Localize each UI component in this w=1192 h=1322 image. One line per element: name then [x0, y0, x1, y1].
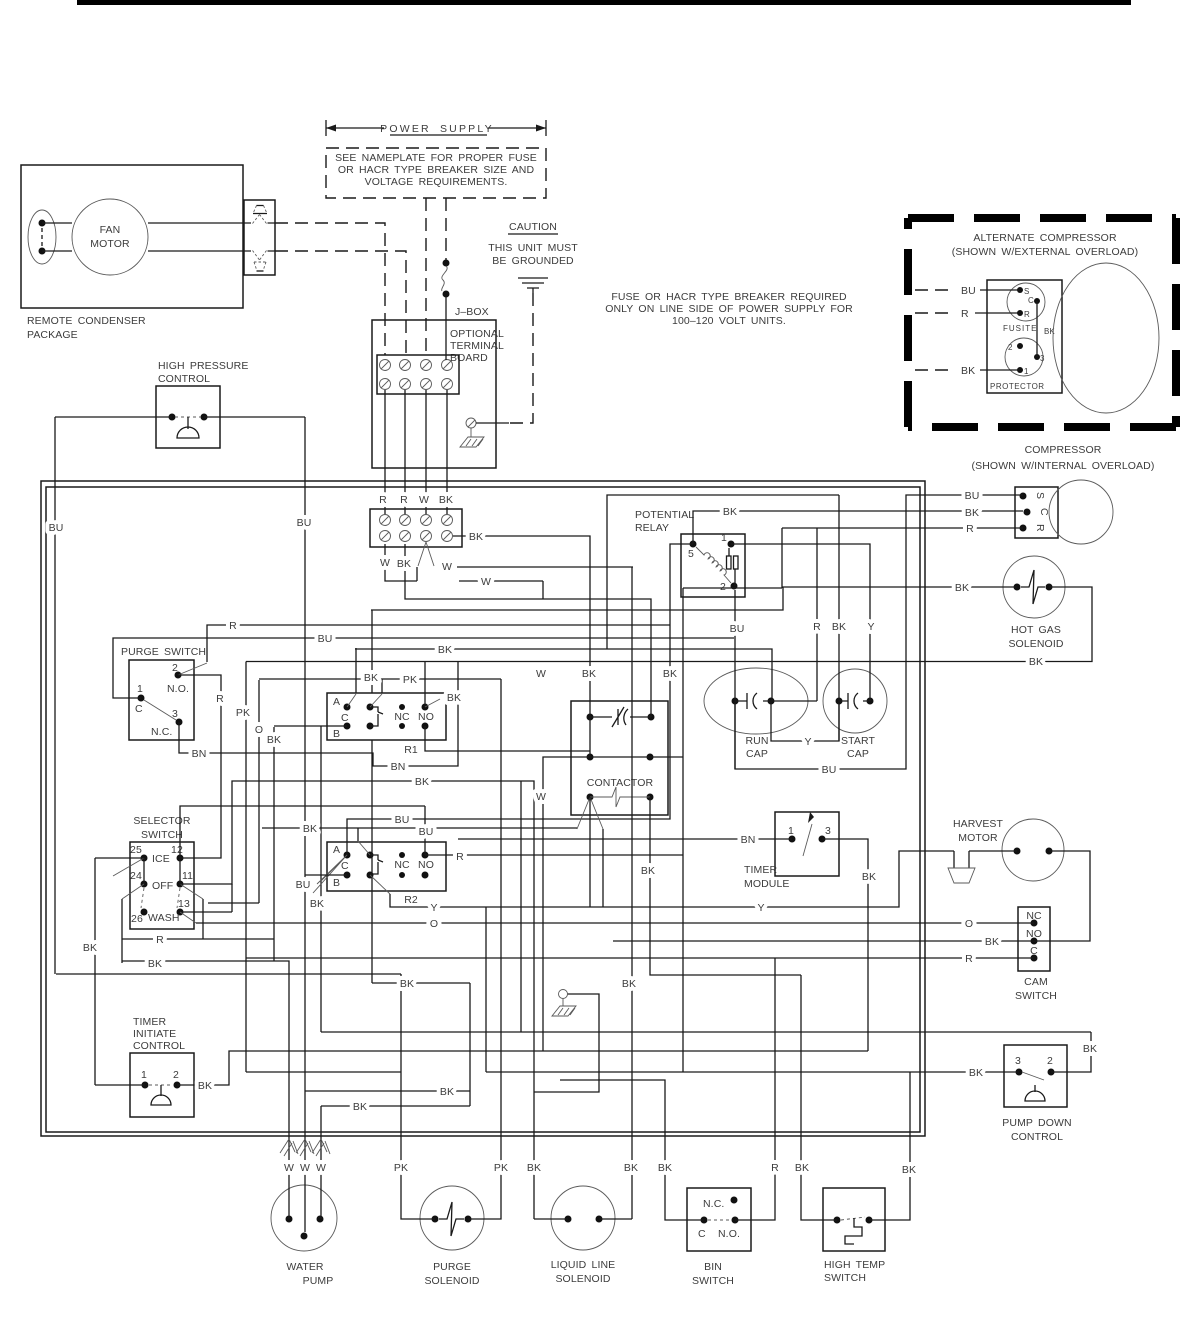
svg-text:BOARD: BOARD — [450, 352, 488, 364]
svg-text:A: A — [333, 844, 340, 856]
svg-text:CAP: CAP — [847, 748, 869, 760]
wire contactor right contacts — [650, 528, 782, 1072]
svg-text:HIGH PRESSURE: HIGH PRESSURE — [158, 360, 248, 372]
svg-text:PURGE: PURGE — [433, 1261, 471, 1273]
relay R2 — [327, 842, 446, 891]
svg-text:12: 12 — [171, 844, 183, 856]
svg-text:C: C — [1038, 508, 1050, 516]
svg-text:BU: BU — [318, 633, 333, 645]
svg-text:N.O.: N.O. — [167, 683, 189, 695]
svg-text:BK: BK — [1083, 1043, 1097, 1055]
svg-text:R: R — [456, 851, 464, 863]
svg-text:BU: BU — [296, 879, 311, 891]
timer module — [775, 812, 839, 876]
svg-text:N.C.: N.C. — [703, 1198, 724, 1210]
svg-text:24: 24 — [130, 870, 142, 882]
svg-text:BK: BK — [438, 644, 452, 656]
svg-text:BK: BK — [527, 1162, 541, 1174]
condenser connector — [244, 200, 275, 275]
svg-text:SWITCH: SWITCH — [692, 1275, 734, 1287]
wire horizontal to PK drop — [56, 973, 401, 975]
svg-text:BIN: BIN — [704, 1261, 722, 1273]
wire PK R1 armature — [370, 694, 382, 707]
svg-text:REMOTE CONDENSER: REMOTE CONDENSER — [27, 315, 146, 327]
svg-text:W: W — [380, 557, 390, 569]
svg-text:BK: BK — [364, 672, 378, 684]
hot gas solenoid — [1003, 556, 1065, 618]
svg-text:BU: BU — [297, 517, 312, 529]
wire BU potential relay 2 to run cap — [734, 590, 736, 769]
svg-text:R: R — [961, 308, 969, 320]
pump down control — [1004, 1045, 1067, 1107]
svg-text:BU: BU — [395, 814, 410, 826]
svg-text:SELECTOR: SELECTOR — [133, 815, 191, 827]
wire hot gas feed — [371, 587, 1017, 610]
svg-text:NO: NO — [418, 711, 434, 723]
svg-text:COMPRESSOR: COMPRESSOR — [1025, 444, 1102, 456]
svg-text:A: A — [333, 696, 340, 708]
svg-text:BK: BK — [83, 942, 97, 954]
svg-text:BK: BK — [582, 668, 596, 680]
wire selector 11 right — [180, 781, 534, 1219]
wire potential relay 5 left — [347, 544, 693, 855]
svg-text:R: R — [1034, 524, 1046, 532]
svg-text:R: R — [966, 523, 974, 535]
svg-text:(SHOWN W/EXTERNAL OVERLOAD): (SHOWN W/EXTERNAL OVERLOAD) — [952, 246, 1138, 258]
contactor coil — [587, 794, 594, 801]
svg-text:THIS UNIT MUST: THIS UNIT MUST — [488, 242, 578, 254]
run cap — [704, 668, 808, 734]
svg-text:TERMINAL: TERMINAL — [450, 340, 504, 352]
wire BK R1 NO down — [425, 726, 590, 751]
svg-text:N.O.: N.O. — [718, 1228, 740, 1240]
svg-text:OPTIONAL: OPTIONAL — [450, 328, 504, 340]
wire BK R1 B column — [274, 610, 470, 1219]
svg-text:BK: BK — [447, 692, 461, 704]
ground screw — [466, 418, 476, 428]
svg-text:FUSE OR HACR TYPE BREAKER REQU: FUSE OR HACR TYPE BREAKER REQUIRED — [611, 291, 847, 303]
svg-text:3: 3 — [825, 825, 831, 837]
svg-text:R: R — [813, 621, 821, 633]
svg-text:BK: BK — [902, 1164, 916, 1176]
fuse squiggle node — [443, 260, 450, 267]
svg-text:BK: BK — [397, 558, 411, 570]
svg-text:BK: BK — [469, 531, 483, 543]
svg-text:NC: NC — [1026, 910, 1042, 922]
wire BK selector 25 to timer initiate — [95, 858, 145, 1085]
optional terminal board strip — [377, 355, 459, 394]
svg-text:C: C — [135, 703, 143, 715]
svg-text:BK: BK — [985, 936, 999, 948]
svg-text:W: W — [536, 668, 546, 680]
svg-text:25: 25 — [130, 844, 142, 856]
svg-text:BK: BK — [663, 668, 677, 680]
svg-text:W: W — [300, 1162, 310, 1174]
svg-text:BK: BK — [862, 871, 876, 883]
remote condenser package box — [21, 165, 243, 308]
svg-text:BK: BK — [622, 978, 636, 990]
svg-text:BK: BK — [795, 1162, 809, 1174]
wire BK bin switch left — [560, 1080, 704, 1220]
main cabinet double-line box — [41, 481, 925, 1136]
svg-text:J–BOX: J–BOX — [455, 306, 489, 318]
svg-text:O: O — [255, 724, 263, 736]
wire R2 A leaders — [313, 855, 347, 893]
svg-text:POWER SUPPLY: POWER SUPPLY — [380, 123, 494, 135]
svg-text:VOLTAGE REQUIREMENTS.: VOLTAGE REQUIREMENTS. — [365, 176, 508, 188]
wires through to inner terminal strip — [385, 390, 447, 515]
svg-text:O: O — [430, 918, 438, 930]
start cap — [823, 669, 887, 733]
svg-text:1: 1 — [141, 1069, 147, 1081]
power supply dashed box — [326, 148, 546, 198]
svg-text:BN: BN — [741, 834, 756, 846]
svg-text:TIMER: TIMER — [133, 1016, 166, 1028]
break arrows at cabinet bottom — [280, 1139, 330, 1156]
svg-text:S: S — [1024, 287, 1029, 296]
svg-text:BK: BK — [1029, 656, 1043, 668]
svg-text:PURGE SWITCH: PURGE SWITCH — [121, 646, 206, 658]
wire W screw1 — [385, 544, 417, 581]
svg-text:BK: BK — [658, 1162, 672, 1174]
svg-text:BU: BU — [822, 764, 837, 776]
svg-text:PROTECTOR: PROTECTOR — [990, 382, 1045, 391]
svg-text:BN: BN — [192, 748, 207, 760]
svg-text:Y: Y — [867, 621, 874, 633]
wire PK purge solenoid left — [246, 974, 1019, 1219]
wire selector 12 up — [180, 806, 425, 858]
svg-text:BK: BK — [961, 365, 975, 377]
screws row1 — [380, 360, 453, 390]
svg-text:5: 5 — [688, 548, 694, 560]
svg-text:BU: BU — [965, 490, 980, 502]
svg-text:ONLY ON LINE SIDE OF POWER SUP: ONLY ON LINE SIDE OF POWER SUPPLY FOR — [605, 303, 853, 315]
svg-text:MODULE: MODULE — [744, 878, 790, 890]
svg-text:Y: Y — [430, 902, 437, 914]
earth ground symbol — [518, 278, 548, 293]
protector — [1005, 338, 1043, 376]
wire R compressor to run cap — [425, 528, 1023, 855]
contactor box — [571, 701, 668, 815]
bin switch — [687, 1188, 751, 1251]
svg-text:RUN: RUN — [745, 735, 768, 747]
wire run cap R link — [771, 700, 817, 702]
wire pump down right — [1051, 1032, 1091, 1072]
purge solenoid — [420, 1186, 484, 1250]
svg-text:RELAY: RELAY — [635, 522, 669, 534]
svg-text:C: C — [698, 1228, 706, 1240]
svg-text:PK: PK — [403, 674, 417, 686]
wire BK potential relay to compressor C — [693, 511, 1023, 544]
wire BU main left vertical — [304, 417, 306, 1232]
BK jumper C to 3 — [1036, 301, 1038, 357]
wire purge 2 to selector 12 — [178, 675, 221, 858]
svg-text:R: R — [379, 494, 387, 506]
svg-text:BK: BK — [969, 1067, 983, 1079]
svg-text:2: 2 — [172, 662, 178, 674]
compressor terminal box — [1015, 487, 1058, 538]
svg-text:2: 2 — [173, 1069, 179, 1081]
wire BK liquid line right — [599, 1218, 632, 1220]
svg-text:R: R — [771, 1162, 779, 1174]
svg-text:POTENTIAL: POTENTIAL — [635, 509, 694, 521]
svg-text:R: R — [1024, 310, 1030, 319]
dashed ground wire — [509, 293, 533, 423]
svg-text:100–120 VOLT UNITS.: 100–120 VOLT UNITS. — [672, 315, 786, 327]
high temp switch — [823, 1188, 885, 1251]
wire BK j-box upper long — [355, 495, 839, 701]
svg-text:START: START — [841, 735, 875, 747]
svg-text:2: 2 — [720, 581, 726, 593]
inner terminal strip — [370, 509, 462, 547]
svg-text:BK: BK — [148, 958, 162, 970]
svg-text:WASH: WASH — [148, 912, 180, 924]
svg-text:13: 13 — [178, 898, 190, 910]
alt compressor shell — [1053, 263, 1159, 413]
svg-text:SOLENOID: SOLENOID — [424, 1275, 479, 1287]
svg-text:FAN: FAN — [100, 224, 121, 236]
svg-text:BK: BK — [415, 776, 429, 788]
wire BU run cap to compressor S — [735, 495, 1023, 769]
svg-text:SWITCH: SWITCH — [1015, 990, 1057, 1002]
top title bar — [77, 0, 1131, 5]
svg-text:CONTROL: CONTROL — [158, 373, 210, 385]
svg-text:26: 26 — [131, 913, 143, 925]
svg-text:C: C — [1028, 296, 1034, 305]
wire purge NC drop — [179, 662, 458, 766]
wire harvest to cam NO — [1034, 851, 1090, 941]
svg-text:2: 2 — [1047, 1055, 1053, 1067]
wire R purge 2 — [178, 663, 207, 675]
wire BK mid drop — [321, 781, 1091, 1032]
relay R1 — [327, 693, 446, 740]
svg-text:R: R — [156, 934, 164, 946]
fusite — [1007, 283, 1045, 321]
svg-text:1: 1 — [721, 532, 727, 544]
water pump — [271, 1185, 337, 1251]
contactor main contact — [587, 714, 594, 721]
svg-text:ICE: ICE — [152, 853, 170, 865]
svg-text:BK: BK — [832, 621, 846, 633]
svg-text:W: W — [442, 561, 452, 573]
svg-text:HARVEST: HARVEST — [953, 818, 1004, 830]
svg-text:BK: BK — [267, 734, 281, 746]
svg-text:FUSITE: FUSITE — [1003, 324, 1037, 333]
svg-text:11: 11 — [182, 870, 193, 882]
svg-text:NC: NC — [394, 859, 410, 871]
wire BK pump down left drop — [869, 1072, 910, 1220]
svg-text:PUMP DOWN: PUMP DOWN — [1002, 1117, 1071, 1129]
svg-text:O: O — [965, 918, 973, 930]
svg-text:2: 2 — [1008, 343, 1013, 352]
svg-text:TIMER: TIMER — [744, 864, 777, 876]
svg-text:BK: BK — [400, 978, 414, 990]
wire BK top strip to contactor — [453, 536, 590, 757]
wire PK purge solenoid right — [468, 679, 501, 1219]
harvest horn — [954, 851, 969, 868]
wire BK liquid line left — [534, 994, 599, 1219]
wire BK start cap left — [838, 495, 840, 741]
svg-text:MOTOR: MOTOR — [958, 832, 998, 844]
wire BK screw2 — [405, 544, 651, 717]
svg-text:3: 3 — [1015, 1055, 1021, 1067]
power supply drops — [425, 198, 427, 355]
wire timer module 3 — [822, 839, 868, 1051]
svg-text:NO: NO — [418, 859, 434, 871]
svg-text:SEE NAMEPLATE FOR PROPER FUSE: SEE NAMEPLATE FOR PROPER FUSE — [335, 152, 537, 164]
wire R1 A feed — [355, 648, 357, 693]
fan wires — [42, 223, 244, 251]
svg-text:BK: BK — [965, 507, 979, 519]
svg-text:ALTERNATE COMPRESSOR: ALTERNATE COMPRESSOR — [973, 232, 1117, 244]
svg-text:1: 1 — [788, 825, 794, 837]
svg-text:W: W — [536, 791, 546, 803]
wire BK selector to water pump left — [122, 961, 289, 1219]
svg-text:Y: Y — [757, 902, 764, 914]
J-BOX outline — [372, 320, 496, 468]
svg-text:1: 1 — [137, 683, 143, 695]
relay coil diagonal — [696, 547, 731, 583]
wire W screw3 leads — [418, 542, 434, 566]
svg-text:SOLENOID: SOLENOID — [1008, 638, 1063, 650]
svg-text:PUMP: PUMP — [303, 1275, 334, 1287]
fan motor — [72, 199, 148, 275]
svg-text:BU: BU — [730, 623, 745, 635]
svg-text:BU: BU — [49, 522, 64, 534]
wire BK cam NO — [613, 940, 1034, 942]
svg-text:BK: BK — [955, 582, 969, 594]
wire contactor coil right — [650, 797, 801, 975]
wire BK R1 NO up — [424, 661, 426, 707]
wire hot gas return — [246, 587, 1092, 662]
wire timer initiate 2 — [177, 1051, 868, 1085]
wire potential relay 1 to Y — [731, 544, 870, 701]
svg-text:BU: BU — [961, 285, 976, 297]
svg-text:NO: NO — [1026, 928, 1042, 940]
svg-text:C: C — [341, 712, 349, 724]
svg-text:W: W — [284, 1162, 294, 1174]
svg-text:C: C — [341, 860, 349, 872]
alt compressor terminal box — [987, 280, 1062, 393]
wire contactor aux left hook — [543, 757, 590, 1051]
contactor aux contact — [587, 754, 594, 761]
svg-text:BK: BK — [353, 1101, 367, 1113]
svg-text:CONTACTOR: CONTACTOR — [587, 777, 654, 789]
svg-text:W: W — [481, 576, 491, 588]
wire R2 armature top leader — [358, 841, 370, 855]
wire BN R1 to timer module — [458, 839, 792, 1072]
dashed wires to j-box — [275, 223, 385, 355]
wire selector 24 loop — [121, 899, 123, 963]
svg-text:CAP: CAP — [746, 748, 768, 760]
svg-text:HIGH TEMP: HIGH TEMP — [824, 1259, 885, 1271]
svg-text:CAUTION: CAUTION — [509, 221, 557, 233]
cam switch — [1018, 907, 1050, 971]
svg-text:1: 1 — [1024, 367, 1029, 376]
svg-text:Y: Y — [804, 736, 811, 748]
compressor shell — [1049, 480, 1113, 544]
svg-text:R2: R2 — [404, 894, 418, 906]
relay contact — [727, 556, 732, 569]
svg-text:BE GROUNDED: BE GROUNDED — [492, 255, 574, 267]
svg-text:WATER: WATER — [286, 1261, 324, 1273]
svg-text:CAM: CAM — [1024, 976, 1048, 988]
svg-text:R: R — [229, 620, 237, 632]
svg-text:3: 3 — [1040, 354, 1045, 363]
svg-text:LIQUID LINE: LIQUID LINE — [551, 1259, 616, 1271]
svg-text:N.C.: N.C. — [151, 726, 172, 738]
svg-text:BN: BN — [391, 761, 406, 773]
svg-text:HOT GAS: HOT GAS — [1011, 624, 1061, 636]
svg-text:PK: PK — [236, 707, 250, 719]
wire R2 C left — [305, 874, 347, 876]
svg-text:PACKAGE: PACKAGE — [27, 329, 78, 341]
svg-text:BK: BK — [624, 1162, 638, 1174]
svg-text:PK: PK — [394, 1162, 408, 1174]
svg-text:(SHOWN W/INTERNAL OVERLOAD): (SHOWN W/INTERNAL OVERLOAD) — [972, 460, 1155, 472]
wire BK high temp left — [801, 975, 837, 1220]
svg-text:B: B — [333, 728, 340, 740]
wire BU high pressure left drop — [54, 417, 56, 974]
wire PK drops — [208, 662, 274, 1073]
svg-text:W: W — [419, 494, 429, 506]
wire R selector loop — [122, 884, 274, 939]
svg-text:R1: R1 — [404, 744, 418, 756]
svg-text:CONTROL: CONTROL — [1011, 1131, 1063, 1143]
svg-text:R: R — [400, 494, 408, 506]
svg-text:B: B — [333, 877, 340, 889]
svg-text:W: W — [316, 1162, 326, 1174]
liquid line solenoid — [551, 1186, 615, 1250]
svg-text:SWITCH: SWITCH — [141, 829, 183, 841]
svg-text:INITIATE: INITIATE — [133, 1028, 176, 1040]
wire BU R2 NO column — [424, 806, 426, 855]
svg-text:BK: BK — [641, 865, 655, 877]
wire Y R2 armature to harvest — [370, 875, 390, 894]
svg-text:BU: BU — [419, 826, 434, 838]
power supply dimension line — [326, 120, 546, 136]
wire BU purge C hook — [113, 638, 734, 698]
wires from high pressure control — [55, 416, 305, 418]
svg-text:OR HACR TYPE BREAKER SIZE AND: OR HACR TYPE BREAKER SIZE AND — [338, 164, 535, 176]
svg-text:R: R — [216, 693, 224, 705]
svg-text:C: C — [1030, 945, 1038, 957]
svg-text:BK: BK — [303, 823, 317, 835]
svg-text:PK: PK — [494, 1162, 508, 1174]
svg-text:BK: BK — [440, 1086, 454, 1098]
svg-text:SOLENOID: SOLENOID — [555, 1273, 610, 1285]
wire Y run to start cap — [771, 701, 839, 741]
wire R bin switch right to cam — [246, 958, 1034, 1220]
svg-text:OFF: OFF — [152, 880, 173, 892]
svg-text:BK: BK — [310, 898, 324, 910]
fan plug oval — [28, 210, 56, 264]
svg-text:SWITCH: SWITCH — [824, 1272, 866, 1284]
svg-text:BK: BK — [723, 506, 737, 518]
svg-text:NC: NC — [394, 711, 410, 723]
svg-text:BK: BK — [198, 1080, 212, 1092]
wire selector 13 diag to O line — [180, 912, 196, 923]
alternate compressor thick dashed box — [908, 218, 1176, 427]
svg-text:S: S — [1034, 492, 1046, 499]
dashed leads BU R BK — [915, 289, 952, 291]
svg-text:BK: BK — [439, 494, 453, 506]
svg-text:MOTOR: MOTOR — [90, 238, 130, 250]
svg-text:R: R — [965, 953, 973, 965]
wire BK lower loop 1 — [305, 1091, 470, 1106]
svg-text:CONTROL: CONTROL — [133, 1040, 185, 1052]
